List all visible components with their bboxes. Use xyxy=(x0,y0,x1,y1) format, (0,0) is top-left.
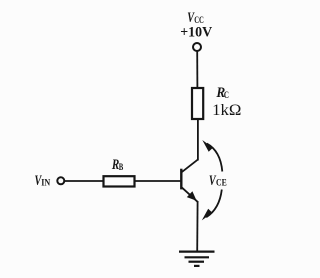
svg-text:C: C xyxy=(224,90,229,100)
svg-text:1kΩ: 1kΩ xyxy=(212,100,241,119)
svg-text:B: B xyxy=(119,162,124,172)
svg-text:IN: IN xyxy=(41,177,51,188)
svg-text:+10V: +10V xyxy=(180,24,212,41)
svg-text:CE: CE xyxy=(216,177,227,188)
